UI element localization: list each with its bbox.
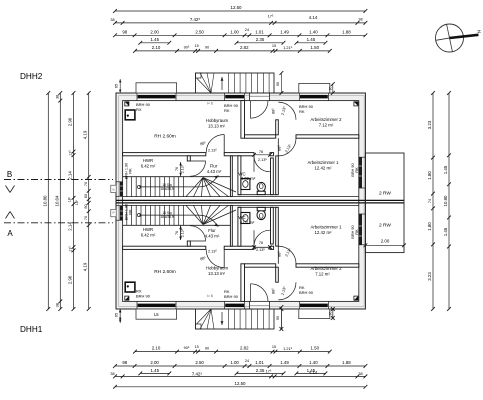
svg-text:1.45: 1.45 [307,37,316,42]
svg-text:17⁵: 17⁵ [69,246,73,252]
svg-text:2.13⁵: 2.13⁵ [180,164,184,173]
svg-text:RK: RK [299,109,305,114]
svg-text:1.88: 1.88 [342,29,351,34]
svg-text:RH 2.60m: RH 2.60m [154,134,176,140]
svg-text:4.19: 4.19 [83,130,88,139]
svg-text:2.14: 2.14 [68,171,73,180]
svg-text:90: 90 [328,312,332,316]
svg-text:2.50: 2.50 [195,360,204,365]
svg-text:BRH 90: BRH 90 [299,290,314,295]
svg-text:90: 90 [328,87,332,91]
svg-text:2.82: 2.82 [240,45,249,50]
svg-text:90⁵: 90⁵ [184,45,190,49]
svg-text:18,4/25,9: 18,4/25,9 [160,215,174,219]
svg-text:4.43 m²: 4.43 m² [207,169,222,174]
svg-text:98: 98 [122,29,127,34]
svg-text:12.42 m²: 12.42 m² [315,230,333,235]
svg-text:Hobbyraum: Hobbyraum [206,266,229,271]
svg-text:60: 60 [84,194,88,198]
svg-text:88⁵: 88⁵ [278,251,282,257]
svg-text:2.13⁵: 2.13⁵ [208,149,217,153]
svg-text:7.12 m²: 7.12 m² [315,272,330,277]
svg-text:2.90: 2.90 [68,117,73,126]
svg-text:24: 24 [245,28,249,32]
svg-text:Hobbyraum: Hobbyraum [206,118,229,123]
svg-text:Arbeitszimmer 1: Arbeitszimmer 1 [310,225,342,230]
svg-text:2 RW: 2 RW [379,223,391,229]
svg-text:1.45: 1.45 [443,227,448,236]
svg-text:12.42 m²: 12.42 m² [315,166,333,171]
svg-text:2.13⁵: 2.13⁵ [208,250,217,254]
svg-text:15: 15 [272,345,276,349]
svg-text:4.14: 4.14 [309,370,318,375]
svg-text:RK: RK [129,168,133,174]
svg-text:1.49: 1.49 [280,360,289,365]
svg-text:90: 90 [205,346,209,350]
svg-text:15: 15 [194,345,198,349]
svg-text:74: 74 [428,199,432,203]
svg-text:15: 15 [272,44,276,48]
svg-text:DHH2: DHH2 [20,72,43,81]
svg-text:18⁵: 18⁵ [67,196,71,202]
svg-text:10.80: 10.80 [443,195,448,207]
svg-text:RK: RK [129,209,133,215]
svg-text:4.19: 4.19 [83,262,88,271]
svg-text:2.00: 2.00 [150,29,159,34]
svg-text:88⁵: 88⁵ [278,145,282,151]
svg-text:4.02 m²: 4.02 m² [240,220,255,225]
svg-text:BRH 90: BRH 90 [136,293,151,298]
svg-text:1.21⁵: 1.21⁵ [283,347,292,351]
svg-text:HWR: HWR [143,227,153,232]
svg-text:1.50: 1.50 [311,346,320,351]
svg-text:1.45: 1.45 [151,37,160,42]
svg-text:2.82: 2.82 [240,346,249,351]
svg-text:4.14: 4.14 [309,15,318,20]
svg-text:1.40: 1.40 [309,29,318,34]
svg-text:38: 38 [358,18,362,22]
svg-text:1.45: 1.45 [443,165,448,174]
svg-text:Arbeitszimmer 1: Arbeitszimmer 1 [307,160,339,165]
svg-text:6.42 m²: 6.42 m² [141,164,156,169]
svg-text:7.42⁵: 7.42⁵ [190,17,201,22]
svg-text:17⁵: 17⁵ [266,370,272,374]
svg-text:76: 76 [175,231,179,235]
svg-text:1.49: 1.49 [280,29,289,34]
svg-text:B: B [7,170,12,179]
svg-text:98: 98 [122,360,127,365]
svg-text:17⁵: 17⁵ [268,15,274,19]
svg-text:2.10: 2.10 [152,346,161,351]
svg-text:1.88: 1.88 [342,360,351,365]
svg-text:90: 90 [205,46,209,50]
svg-text:DHH1: DHH1 [20,325,43,334]
svg-text:1.40: 1.40 [309,360,318,365]
svg-text:A: A [7,229,13,238]
svg-text:18⁵: 18⁵ [75,199,79,205]
svg-text:l≈ 6: l≈ 6 [207,294,213,298]
svg-text:2.35: 2.35 [256,37,265,42]
svg-text:7.12 m²: 7.12 m² [319,123,334,128]
svg-text:l≈ 6: l≈ 6 [207,102,213,106]
svg-text:2.00: 2.00 [150,360,159,365]
svg-text:RX: RX [136,107,142,112]
svg-text:2.10: 2.10 [152,45,161,50]
svg-text:38: 38 [110,18,114,22]
svg-text:38: 38 [56,303,60,307]
svg-text:2.35: 2.35 [256,368,265,373]
svg-text:88⁵: 88⁵ [272,108,276,114]
svg-text:1.00: 1.00 [230,360,239,365]
svg-text:17⁵: 17⁵ [69,150,73,156]
svg-text:2.50: 2.50 [195,29,204,34]
svg-text:RH 2.60m: RH 2.60m [154,269,176,275]
svg-text:4.02 m²: 4.02 m² [241,176,256,181]
svg-text:RK: RK [355,167,359,173]
svg-text:12.50: 12.50 [231,5,243,10]
svg-text:70: 70 [84,216,88,220]
svg-text:76: 76 [175,167,179,171]
svg-text:2 RW: 2 RW [379,191,391,197]
svg-text:13.13 m²: 13.13 m² [208,124,226,129]
svg-text:Arbeitszimmer 2: Arbeitszimmer 2 [310,266,342,271]
svg-text:12.50: 12.50 [235,381,247,386]
svg-text:RK: RK [355,229,359,235]
svg-text:65: 65 [115,313,119,317]
svg-text:10.80: 10.80 [42,195,47,207]
svg-text:38: 38 [56,95,60,99]
svg-text:65: 65 [115,84,119,88]
svg-text:76: 76 [259,241,263,245]
svg-text:3.23: 3.23 [427,120,432,129]
svg-text:1.45: 1.45 [151,368,160,373]
svg-text:1.01: 1.01 [255,360,264,365]
svg-text:70: 70 [84,182,88,186]
svg-text:L5: L5 [154,312,159,317]
svg-text:1.21⁵: 1.21⁵ [283,46,292,50]
svg-text:10.04: 10.04 [54,195,59,207]
svg-text:18,4/25,9: 18,4/25,9 [160,187,174,191]
svg-text:1.01: 1.01 [255,29,264,34]
svg-text:2.00: 2.00 [381,239,390,244]
svg-text:1.50: 1.50 [311,45,320,50]
svg-text:1.80: 1.80 [427,171,432,180]
svg-text:2.90: 2.90 [68,275,73,284]
svg-text:38: 38 [358,372,362,376]
svg-text:RK: RK [224,108,230,113]
svg-text:38: 38 [110,372,114,376]
svg-text:Flur: Flur [210,164,218,169]
svg-text:76: 76 [259,150,263,154]
svg-text:1.00: 1.00 [230,29,239,34]
svg-text:HWR: HWR [143,158,153,163]
svg-text:90: 90 [276,82,280,86]
svg-text:4.43 m²: 4.43 m² [205,234,220,239]
svg-text:Flur: Flur [208,228,216,233]
svg-text:90⁵: 90⁵ [184,346,190,350]
svg-text:13.13 m²: 13.13 m² [208,271,226,276]
svg-text:2.13⁵: 2.13⁵ [258,158,267,162]
svg-text:2.13⁵: 2.13⁵ [256,248,265,252]
svg-text:Arbeitszimmer 2: Arbeitszimmer 2 [310,117,342,122]
svg-text:15: 15 [194,44,198,48]
svg-text:3.23: 3.23 [427,272,432,281]
svg-text:1.80: 1.80 [427,222,432,231]
svg-text:60: 60 [84,204,88,208]
svg-text:6.42 m²: 6.42 m² [141,233,156,238]
svg-text:2.13⁵: 2.13⁵ [180,228,184,237]
svg-text:BRH 90: BRH 90 [224,294,239,299]
svg-text:90: 90 [276,316,280,320]
svg-text:88⁵: 88⁵ [272,288,276,294]
svg-text:24: 24 [245,359,249,363]
svg-text:7.42⁵: 7.42⁵ [192,371,203,376]
